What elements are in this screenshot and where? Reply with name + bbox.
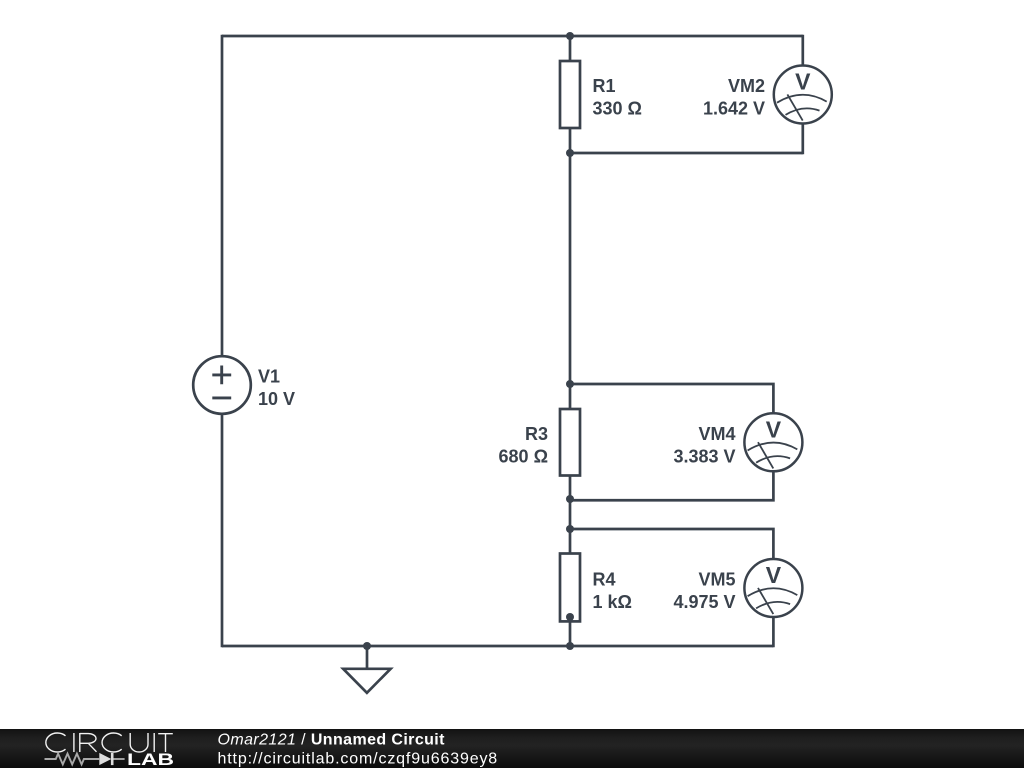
svg-text:V: V — [795, 69, 811, 95]
ground — [343, 646, 390, 693]
logo CIRCUIT wordmark — [46, 733, 173, 752]
logo resistor zigzag — [45, 754, 125, 765]
wire VM4 bottom — [570, 471, 773, 500]
label R1 value 330 ohm — [593, 99, 642, 119]
label R3 designator — [525, 424, 548, 444]
svg-text:V: V — [766, 416, 782, 442]
wire R4 bottom stub — [569, 621, 572, 646]
label VM4 designator — [698, 424, 735, 444]
wire VM4 top — [570, 384, 773, 413]
svg-text:R3: R3 — [525, 424, 548, 444]
label VM2 designator — [728, 76, 765, 96]
wire VM5 top — [570, 529, 773, 559]
svg-text:10 V: 10 V — [258, 389, 295, 409]
voltmeter VM4 — [744, 413, 802, 471]
label R1 designator — [593, 76, 616, 96]
logo diode — [99, 753, 112, 765]
node junction bottom rail — [566, 642, 574, 650]
svg-text:R4: R4 — [593, 570, 616, 590]
svg-text:680 Ω: 680 Ω — [499, 446, 548, 466]
label VM4 value — [673, 446, 735, 466]
voltmeter VM5 — [744, 559, 802, 617]
svg-text:LAB: LAB — [127, 751, 174, 768]
wire VM2 right upper — [801, 35, 804, 66]
node junction below R1 — [566, 149, 574, 157]
resistor R1 — [560, 61, 580, 128]
node junction ground tap — [363, 642, 371, 650]
wire R1 top stub — [569, 36, 572, 61]
wire left upper (to V1 top) — [221, 35, 224, 357]
svg-text:VM2: VM2 — [728, 76, 765, 96]
label VM5 designator — [698, 570, 735, 590]
svg-text:Omar2121 / Unnamed Circuit: Omar2121 / Unnamed Circuit — [218, 732, 446, 749]
wire bottom rail — [222, 645, 773, 648]
wire middle vertical (R1 to R3) — [569, 153, 572, 409]
wire VM2 right lower — [801, 124, 804, 155]
svg-text:VM5: VM5 — [698, 570, 735, 590]
wire VM5 right lower — [772, 617, 775, 647]
svg-text:V1: V1 — [258, 367, 280, 387]
resistor R3 — [560, 409, 580, 476]
voltmeter VM2 — [774, 66, 832, 124]
label V1 designator — [258, 367, 280, 387]
node junction above R3 — [566, 380, 574, 388]
wire VM2 bottom — [570, 152, 803, 155]
label V1 value 10 V — [258, 389, 295, 409]
wire left lower (V1 bottom to bottom rail) — [221, 414, 224, 648]
wire top-right segment — [570, 35, 803, 38]
svg-text:V: V — [766, 562, 782, 588]
node junction below R3 — [566, 495, 574, 503]
svg-text:R1: R1 — [593, 76, 616, 96]
label R3 value 680 ohm — [499, 446, 548, 466]
wire top-left segment — [222, 35, 570, 38]
label VM5 value — [673, 592, 735, 612]
wire R1 bottom stub — [569, 128, 572, 153]
node junction VM5 tap — [566, 525, 574, 533]
voltage source V1 — [193, 356, 251, 414]
logo LAB text — [127, 751, 174, 769]
node junction at top tap — [566, 32, 574, 40]
wire R3 bottom stub — [569, 476, 572, 554]
label R4 designator — [593, 570, 616, 590]
footer url line — [218, 751, 499, 768]
svg-text:1.642 V: 1.642 V — [703, 99, 765, 119]
node junction R4 bottom terminal — [566, 613, 574, 621]
svg-text:330 Ω: 330 Ω — [593, 99, 642, 119]
svg-text:VM4: VM4 — [698, 424, 735, 444]
label VM2 value — [703, 99, 765, 119]
svg-text:1 kΩ: 1 kΩ — [593, 592, 632, 612]
svg-text:4.975 V: 4.975 V — [673, 592, 735, 612]
svg-text:http://circuitlab.com/czqf9u66: http://circuitlab.com/czqf9u6639ey8 — [218, 751, 499, 768]
footer author / title line — [218, 732, 446, 749]
label R4 value 1 kohm — [593, 592, 632, 612]
svg-text:3.383 V: 3.383 V — [673, 446, 735, 466]
resistor R4 — [560, 554, 580, 622]
